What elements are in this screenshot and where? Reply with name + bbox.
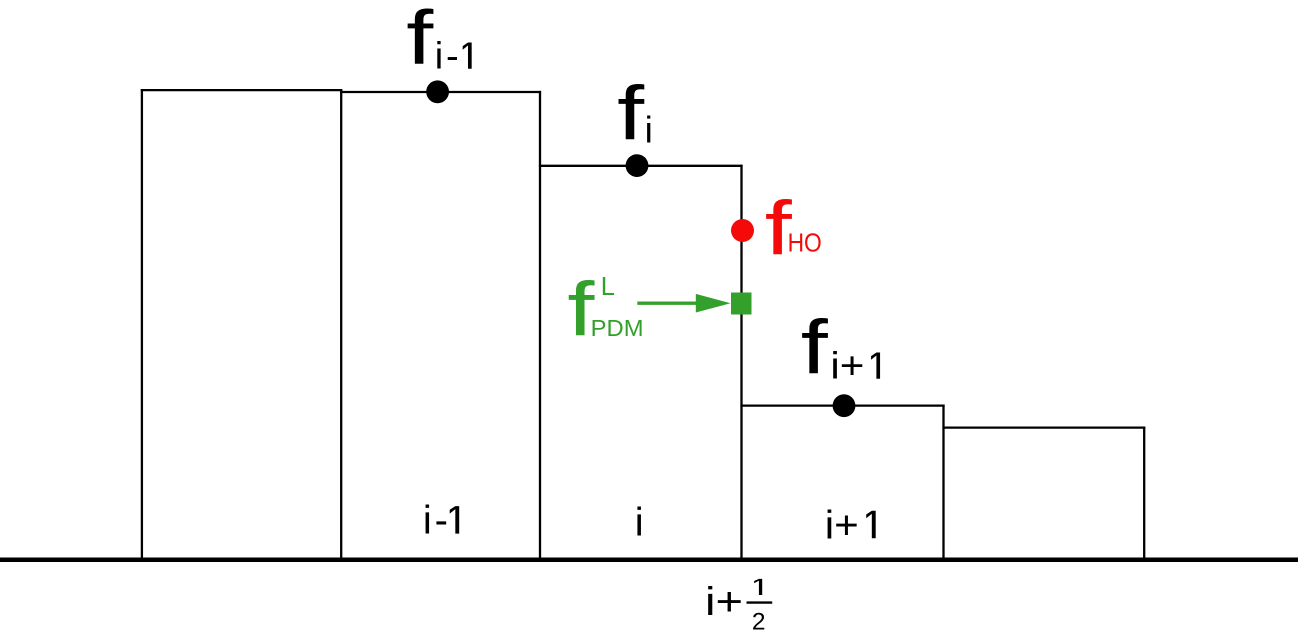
cell i top edge [539,165,743,167]
node: cell average dot f_i [626,154,649,177]
edge between cell i-2 and cell i-1 [340,89,342,558]
svg-text:L: L [601,273,615,301]
node: cell average dot f_{i+1} [833,394,856,417]
edge between cell i-1 and cell i [539,91,541,558]
label f_{i+1} [801,305,880,389]
svg-text:f: f [617,71,645,155]
svg-text:HO: HO [788,230,822,258]
svg-text:i: i [635,501,644,545]
green arrow head [696,294,731,313]
svg-text:i-: i- [435,36,459,78]
cell i-1 top edge [340,91,541,93]
label cell index i [635,501,644,545]
cell i-2 top edge [141,89,342,91]
node: PDM flux point (green square) on interface i+1/2 [731,293,752,315]
svg-text:f: f [406,0,434,80]
svg-text:PDM: PDM [591,315,644,341]
label interface i+1/2 below axis [705,579,772,634]
label f_{i-1} [406,0,471,80]
svg-text:i+: i+ [825,503,859,547]
cell i-2 left edge [141,89,143,558]
node: cell average dot f_{i-1} [426,80,449,103]
node: high-order flux point f_HO (red dot) [731,219,754,242]
label cell index i+1 [825,503,876,547]
ground axis line [0,557,1298,562]
label f_i [617,71,653,155]
cell i+1 top edge [740,404,944,406]
label f_HO (red) [765,186,822,270]
svg-text:i: i [645,110,653,151]
label f_PDM^L (green) [567,267,643,351]
green arrow shaft [637,302,699,305]
svg-text:f: f [801,305,829,389]
svg-text:i+: i+ [705,580,743,624]
cell i+2 top edge [942,426,1145,428]
svg-text:2: 2 [752,608,766,634]
edge between cell i and cell i+1 (interface i+1/2) [740,165,742,558]
label cell index i-1 [423,499,459,543]
svg-text:i-: i- [423,499,448,543]
svg-text:i+: i+ [830,346,864,388]
edge between cell i+1 and cell i+2 [942,405,944,558]
cell i+2 right edge [1143,427,1145,558]
